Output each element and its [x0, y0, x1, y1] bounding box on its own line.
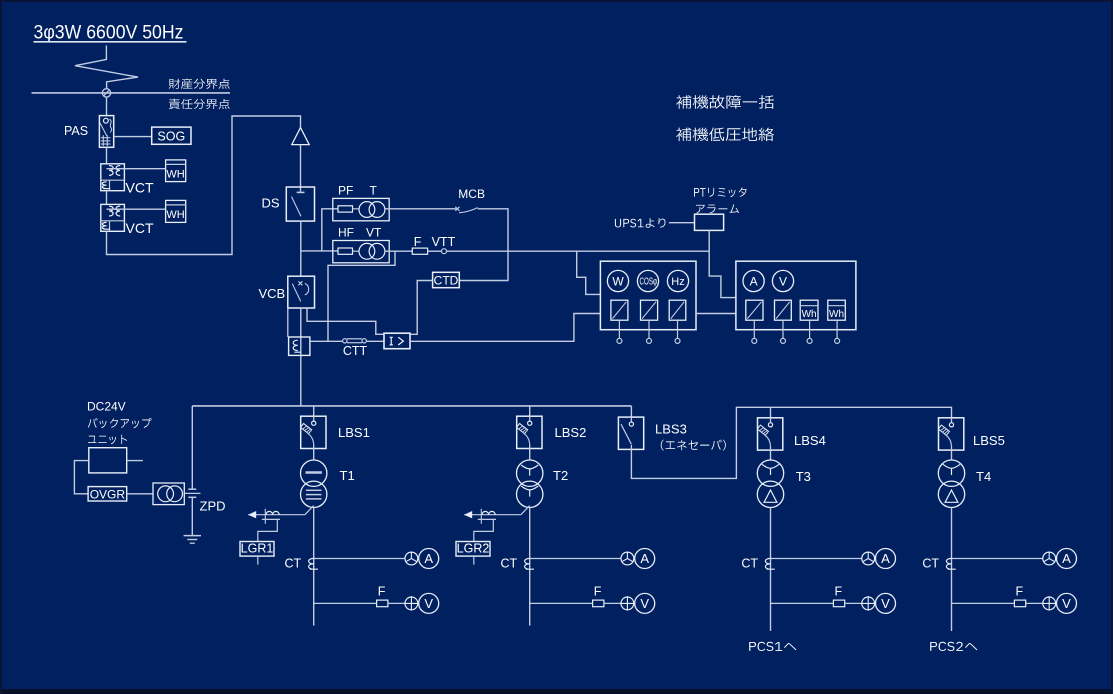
LBS1 blade curve — [308, 433, 314, 444]
wire: LBS3 to sub-bus — [631, 407, 951, 478]
wire: F to VTT — [428, 250, 442, 252]
transformer T2 primary circle — [517, 460, 543, 486]
ZCT coil bumps (LGR1) — [266, 511, 279, 514]
transformer VT secondary circle — [369, 243, 385, 259]
svg-text:LBS4: LBS4 — [794, 433, 826, 448]
wire: bus tap to LBS2 — [529, 406, 531, 416]
wire: transformer to ZPD tap — [184, 492, 200, 494]
overcurrent relay I> box — [384, 333, 410, 349]
Wh2 top divider — [828, 305, 846, 307]
svg-text:LBS3: LBS3 — [655, 422, 687, 437]
VCB x-mark — [298, 281, 302, 285]
label: PCS1へ — [749, 642, 796, 651]
svg-text:ZPD: ZPD — [200, 499, 226, 514]
LBS1 exit line — [313, 444, 315, 448]
wire: transformer T column down at x=770.5 — [770, 507, 772, 631]
svg-text:LBS2: LBS2 — [555, 425, 587, 440]
svg-text:V: V — [881, 596, 890, 611]
voltmeter V x=313.7 — [419, 593, 439, 613]
wire: feeder to fuse x=770.5 — [771, 602, 834, 604]
DS top contact tick — [297, 191, 305, 193]
switch PAS (box) — [99, 116, 113, 148]
transformer T4 secondary circle — [938, 481, 964, 507]
svg-text:VCB: VCB — [259, 286, 286, 301]
svg-text:3φ3W 6600V 50Hz: 3φ3W 6600V 50Hz — [34, 23, 184, 44]
wire: main 6.6kV bus — [192, 405, 631, 407]
ZCT coil bumps (LGR2) — [482, 511, 495, 514]
wire: fuse to voltmeter switch x=529.7 — [604, 602, 621, 604]
wire: riser to PF-T — [322, 209, 338, 251]
photo edge right — [1111, 0, 1113, 694]
voltmeter changeover switch x=951.5 — [1043, 597, 1056, 610]
T4 secondary winding delta — [945, 490, 958, 502]
svg-text:LBS5: LBS5 — [973, 433, 1005, 448]
VS spokes x=951.5 — [1042, 596, 1056, 610]
LBS1 striped blade — [301, 423, 312, 433]
svg-text:OVGR: OVGR — [90, 487, 126, 501]
AS spokes x=313.7 — [406, 552, 417, 562]
svg-text:CT: CT — [741, 557, 758, 571]
label: 補機低圧地絡 — [676, 128, 774, 142]
wire: VCB left edge down to CT box — [287, 308, 289, 337]
DS blade — [292, 197, 302, 217]
terminal stub 4 (panel 2) — [836, 320, 838, 338]
ammeter changeover switch x=313.7 — [405, 552, 418, 565]
ammeter A x=951.5 — [1057, 549, 1077, 569]
metering VCT2 outer box — [101, 204, 125, 231]
label: PTリミッタ — [694, 187, 746, 197]
wire: bus end down to LBS3 — [630, 406, 632, 417]
terminal circle 2 (panel 1) — [647, 338, 652, 343]
terminal circle 1 (panel 2) — [752, 338, 757, 343]
label: 補機故障一括 — [676, 95, 774, 109]
relay LGR2 box — [456, 542, 490, 557]
ammeter changeover switch x=529.7 — [621, 552, 634, 565]
fuse + voltage transformer HF/VT box — [333, 241, 389, 263]
slash in interconnection circle — [104, 90, 110, 96]
arrowhead (LGR2) — [464, 511, 472, 518]
AS spokes x=951.5 — [1044, 552, 1055, 562]
transducer square 1 (panel 2) — [746, 300, 763, 320]
transformer T1 primary circle — [301, 460, 327, 486]
VCT1 CT coil pair — [109, 166, 120, 176]
voltmeter changeover switch x=529.7 — [621, 597, 634, 610]
meter WH1 box — [166, 160, 186, 182]
ground bar 1 — [184, 535, 201, 537]
svg-text:DS: DS — [262, 196, 280, 211]
T3 primary winding wye — [762, 464, 779, 475]
wire: UPS1 label to PT limiter box — [669, 222, 695, 224]
svg-text:WH: WH — [166, 209, 184, 221]
LBS3 exit line — [630, 445, 632, 449]
LBS4 striped blade — [757, 425, 768, 435]
photo edge top — [0, 0, 1113, 2]
meter Hz circle — [667, 270, 688, 291]
svg-text:W: W — [612, 274, 624, 288]
energy meter Wh2 box — [828, 300, 846, 320]
ground bar 3 — [190, 542, 195, 544]
coupling transformer circle 2 — [167, 486, 183, 502]
coupling transformer circle 1 — [158, 486, 174, 502]
T1 secondary bar 1 — [306, 489, 322, 491]
terminal stub 1 (panel 1) — [618, 320, 620, 338]
wire: tap to HF-VT — [301, 250, 338, 252]
wire: ZCT to LGR1 — [258, 519, 278, 541]
wire: demarcation line — [32, 92, 231, 94]
terminal circle 4 (panel 2) — [835, 338, 840, 343]
LBS2 striped blade — [517, 423, 528, 433]
title underline — [34, 41, 187, 43]
wire: ZCT line with arrow (LGR2) — [464, 514, 521, 516]
CTT link bar top — [347, 338, 362, 340]
LBS3 entry line — [630, 417, 632, 422]
VCT2 divider — [101, 220, 125, 222]
svg-text:V: V — [1062, 596, 1071, 611]
wire: LGR2 bottom stub — [473, 556, 475, 565]
VCT1 small cell divider — [109, 180, 111, 191]
metering VCT1 outer box — [101, 164, 125, 191]
LBS2 entry line — [529, 416, 531, 421]
wire: feeder to fuse x=951.5 — [952, 602, 1015, 604]
wire: ZCT to LGR2 — [474, 519, 494, 541]
svg-text:F: F — [835, 585, 843, 599]
VCB arc symbol — [305, 283, 309, 295]
PT limiter alarm box — [695, 214, 724, 230]
LBS4 exit line — [770, 446, 772, 450]
VS spokes x=529.7 — [620, 596, 634, 610]
svg-text:V: V — [640, 596, 649, 611]
WH1 top divider — [166, 163, 186, 165]
LBS5 blade curve — [946, 435, 952, 446]
wire: T column to ZCT diagonal (LGR1) — [305, 506, 314, 515]
meter panel 1 box — [600, 261, 696, 330]
svg-text:DC24V: DC24V — [87, 400, 126, 414]
T1 secondary bar 2 — [306, 494, 322, 496]
T2 primary winding symbol — [521, 465, 538, 476]
svg-text:A: A — [640, 551, 649, 566]
voltmeter V x=770.5 — [876, 593, 896, 613]
meter COSphi circle — [637, 270, 658, 291]
voltmeter V x=529.7 — [635, 593, 655, 613]
svg-text:Wh: Wh — [829, 309, 844, 320]
T2 secondary winding symbol — [521, 486, 538, 497]
voltmeter V x=951.5 — [1057, 593, 1077, 613]
terminal stub 3 (panel 2) — [809, 320, 811, 338]
ammeter changeover switch x=770.5 — [862, 552, 875, 565]
svg-text:VTT: VTT — [432, 235, 456, 249]
PAS blade — [100, 123, 107, 137]
svg-text:CTT: CTT — [343, 344, 368, 358]
svg-text:Hz: Hz — [671, 276, 684, 288]
LBS4 blade curve — [765, 435, 771, 446]
transformer T2 secondary circle — [517, 481, 543, 507]
vacuum circuit breaker VCB box — [288, 276, 315, 308]
wire: transformer T column down at x=529.7 — [529, 507, 531, 625]
LBS5 contact circle — [949, 423, 953, 427]
photo edge bottom — [0, 689, 1113, 694]
svg-text:F: F — [594, 585, 602, 599]
transducer square 2 (panel 2) — [775, 300, 792, 320]
label: 財産分界点 (property demarcation point) — [169, 79, 230, 89]
svg-text:T: T — [370, 184, 378, 198]
current transformer CT box (main) — [289, 337, 310, 355]
svg-text:CT: CT — [922, 557, 939, 571]
relay LGR1 box — [240, 542, 274, 557]
CT coil on feeder x=313.7 — [309, 558, 318, 569]
LBS4 contact circle — [768, 423, 772, 427]
CT coil glyph in box — [293, 340, 301, 352]
power fuse + transformer PF/T box — [333, 198, 389, 220]
ammeter A x=770.5 — [876, 549, 896, 569]
label: バックアップ — [88, 418, 152, 428]
wire: VT line entry to panel 1 — [577, 251, 601, 294]
wire: backup unit to OVGR — [74, 461, 88, 494]
meter V circle — [772, 270, 793, 291]
arrowhead (LGR1) — [248, 511, 256, 518]
ammeter A x=313.7 — [419, 549, 439, 569]
relay OVGR box — [88, 487, 127, 501]
meter W circle — [607, 270, 628, 291]
CT coil on feeder x=770.5 — [765, 558, 774, 569]
fuse PF — [338, 206, 353, 212]
label: アラーム — [696, 204, 739, 213]
test terminal CTT right — [362, 339, 366, 343]
wire: fuse to voltmeter switch x=951.5 — [1026, 602, 1043, 604]
disconnect switch DS box — [286, 187, 314, 221]
VCT2 small cell divider — [109, 221, 111, 232]
wire: CTD to I> relay — [410, 281, 433, 335]
wire: backup unit right stub — [127, 460, 143, 462]
transducer 3 diagonal — [671, 302, 684, 319]
VCT2 lower coil — [102, 222, 110, 229]
wire: PF to T — [353, 208, 360, 210]
wire: PAS to SOG — [114, 136, 152, 138]
svg-text:LBS1: LBS1 — [338, 425, 370, 440]
wire: PAS to VCT1 — [106, 147, 108, 164]
coupling transformer box — [153, 483, 184, 505]
transducer square 3 (panel 1) — [669, 300, 686, 320]
AS spokes x=770.5 — [863, 552, 874, 562]
wire: LGR1 bottom stub — [257, 556, 259, 565]
label: PCS2へ — [930, 642, 977, 651]
PAS ZCT sensor grid h1 — [101, 137, 110, 139]
WH2 top divider — [166, 204, 186, 206]
LBS4 entry line — [770, 418, 772, 423]
svg-text:A: A — [750, 274, 758, 288]
MCB blade — [459, 208, 478, 213]
transformer T3 primary circle — [757, 460, 783, 486]
svg-text:T4: T4 — [976, 469, 991, 484]
transformer T primary circle — [359, 202, 375, 218]
node: point of interconnection (circle) — [102, 89, 110, 97]
wire: fuse to voltmeter switch x=313.7 — [388, 602, 405, 604]
label: UPS1より — [615, 218, 666, 228]
wire: circle to PAS — [106, 97, 108, 116]
LBS5 exit line — [951, 446, 953, 450]
svg-text:MCB: MCB — [458, 187, 485, 201]
svg-text:V: V — [779, 274, 787, 288]
wire: incoming zigzag from utility — [75, 46, 138, 89]
CT coil on feeder x=951.5 — [946, 558, 955, 569]
wire: ZPD to ground — [191, 497, 193, 535]
terminal stub 1 (panel 2) — [753, 320, 755, 338]
fuse F feeder x=529.7 — [593, 600, 604, 607]
wire: bus left end down to ZPD — [191, 406, 193, 489]
DC24V backup unit box — [89, 448, 127, 473]
PAS ZCT sensor grid v1 — [102, 135, 104, 146]
wire: panel 1 to panel 2 — [696, 313, 736, 315]
svg-text:A: A — [881, 551, 890, 566]
ZPD capacitor plate top — [188, 488, 196, 490]
svg-text:VCT: VCT — [126, 220, 154, 236]
ZCT core tick (LGR2) — [480, 509, 482, 524]
terminal circle 1 (panel 1) — [617, 338, 622, 343]
transformer T1 secondary circle — [301, 481, 327, 507]
terminal circle 3 (panel 1) — [675, 338, 680, 343]
LBS2 exit line — [529, 444, 531, 448]
terminal stub 3 (panel 1) — [677, 320, 679, 338]
wire: CT to ammeter switch x=951.5 — [952, 558, 1043, 560]
wire: PT limiter drop to meter panel 2 — [709, 230, 736, 297]
wire: arrester to DS — [300, 145, 302, 192]
wire: VTT to UPS drop — [447, 250, 710, 252]
test terminal VTT — [442, 249, 447, 254]
photo edge left — [0, 0, 2, 694]
fuse F feeder x=951.5 — [1014, 600, 1025, 607]
wire: sub-bus tap to LBS4 — [770, 407, 772, 418]
wire: HF to VT — [353, 250, 360, 252]
meter WH2 box — [166, 200, 186, 222]
ZCT secondary bar (LGR2) — [478, 518, 496, 520]
ZPD capacitor plate bottom — [188, 496, 196, 498]
svg-text:PF: PF — [338, 184, 353, 198]
wire: transformer T column down at x=951.5 — [951, 507, 953, 631]
VCT1 lower coil — [102, 182, 110, 189]
label: ユニット — [88, 435, 127, 445]
svg-text:F: F — [378, 585, 386, 599]
label: （エネセーバ） — [661, 440, 726, 451]
terminal circle 2 (panel 2) — [781, 338, 786, 343]
relay SOG (box) — [152, 127, 191, 144]
transducer square 2 (panel 1) — [641, 300, 658, 320]
wire: CT to ammeter switch x=529.7 — [530, 558, 621, 560]
svg-text:COSφ: COSφ — [640, 277, 658, 288]
wire: LBS1 to T1 — [313, 449, 315, 461]
svg-text:F: F — [1016, 585, 1024, 599]
transducer 1 diagonal — [613, 302, 627, 319]
wire: VCT1 to WH1 — [107, 168, 166, 170]
wire: CT to ammeter switch x=770.5 — [771, 558, 862, 560]
Wh1 top divider — [800, 305, 818, 307]
transducer 1 diagonal (panel 2) — [747, 302, 761, 319]
svg-text:LGR2: LGR2 — [457, 542, 490, 556]
PAS contact hook — [109, 119, 111, 133]
LBS5 entry line — [951, 418, 953, 423]
load break switch LBS3 box — [618, 417, 643, 449]
VCT2 CT coil pair — [109, 206, 120, 216]
fuse F feeder x=313.7 — [377, 600, 388, 607]
svg-text:CTD: CTD — [434, 273, 459, 287]
svg-text:VT: VT — [366, 226, 382, 240]
lightning arrester triangle — [292, 128, 309, 145]
svg-text:T1: T1 — [340, 468, 355, 483]
LBS2 contact circle — [528, 421, 532, 425]
wire: CT to ammeter switch x=313.7 — [314, 558, 405, 560]
LBS5 striped blade — [938, 425, 949, 435]
wire: VT out to F — [385, 250, 412, 252]
T1 primary bar — [306, 471, 322, 473]
wire: VT branch down to CTT line — [328, 251, 395, 341]
meter panel 2 box — [736, 261, 856, 330]
LBS3 blade — [621, 424, 631, 444]
VS spokes x=770.5 — [861, 596, 875, 610]
terminal stub 2 (panel 2) — [782, 320, 784, 338]
wire: LBS4 to T3 — [770, 450, 772, 460]
transducer square 1 (panel 1) — [611, 300, 628, 320]
meter A circle — [743, 270, 764, 291]
LBS1 entry line — [313, 416, 315, 421]
wire: OVGR to coupling transformer — [127, 493, 153, 495]
wire: feeder to fuse x=529.7 — [530, 602, 593, 604]
svg-text:T2: T2 — [553, 468, 568, 483]
CT coil on feeder x=529.7 — [525, 558, 534, 569]
I> relay symbol — [390, 337, 404, 345]
ammeter A x=529.7 — [635, 549, 655, 569]
svg-text:F: F — [414, 235, 422, 249]
transformer T4 primary circle — [938, 460, 964, 486]
VCT1 divider — [101, 179, 125, 181]
T4 primary winding wye — [943, 464, 960, 475]
ZCT secondary bar (LGR1) — [262, 518, 280, 520]
voltmeter changeover switch x=770.5 — [862, 597, 875, 610]
MCB contact x-mark — [455, 207, 459, 211]
LBS3 contact circle — [629, 422, 633, 426]
svg-text:CT: CT — [501, 557, 518, 571]
wire: fuse to voltmeter switch x=770.5 — [845, 602, 862, 604]
wire: VCB main down to bus — [300, 308, 302, 406]
transducer 2 diagonal — [642, 302, 656, 319]
wire: PF/T to MCB — [385, 208, 456, 210]
wire: T column to ZCT diagonal (LGR2) — [521, 506, 530, 515]
load break switch LBS4 box — [758, 418, 783, 450]
PAS ZCT sensor grid v2 — [106, 135, 108, 146]
svg-text:PAS: PAS — [64, 124, 88, 138]
ground bar 2 — [187, 539, 197, 541]
svg-text:CT: CT — [285, 557, 302, 571]
voltmeter changeover switch x=313.7 — [405, 597, 418, 610]
wire: transformer T column down at x=313.7 — [313, 507, 315, 625]
label: 責任分界点 (responsibility demarcation point) — [169, 99, 230, 109]
transformer T secondary circle — [369, 202, 385, 218]
transducer 2 diagonal (panel 2) — [776, 302, 790, 319]
LBS1 contact circle — [312, 421, 316, 425]
fuse HF — [338, 248, 353, 254]
CTT link bar bottom — [347, 342, 362, 344]
svg-text:WH: WH — [166, 169, 184, 181]
svg-text:Wh: Wh — [802, 309, 817, 320]
wire: ZCT line with arrow (LGR1) — [248, 514, 305, 516]
ZCT core tick (LGR1) — [264, 509, 266, 524]
wire: CTT to I> relay — [367, 340, 384, 342]
svg-text:SOG: SOG — [157, 129, 185, 143]
test terminal CTT left — [343, 339, 347, 343]
svg-text:LGR1: LGR1 — [241, 542, 274, 556]
energy meter Wh1 box — [800, 300, 818, 320]
wire: I> out to meter panel 1 — [410, 314, 600, 342]
svg-text:HF: HF — [338, 226, 354, 240]
terminal circle 3 (panel 2) — [807, 338, 812, 343]
svg-text:A: A — [1062, 551, 1071, 566]
